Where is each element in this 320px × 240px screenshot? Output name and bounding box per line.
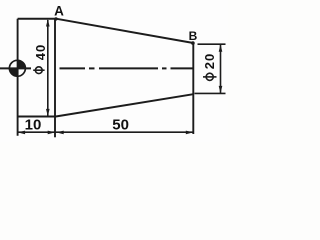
svg-text:40: 40 [33, 44, 48, 60]
svg-text:10: 10 [25, 117, 42, 134]
svg-text:A: A [54, 4, 64, 19]
svg-text:B: B [189, 29, 198, 43]
svg-text:20: 20 [202, 53, 217, 69]
svg-text:50: 50 [112, 117, 129, 134]
